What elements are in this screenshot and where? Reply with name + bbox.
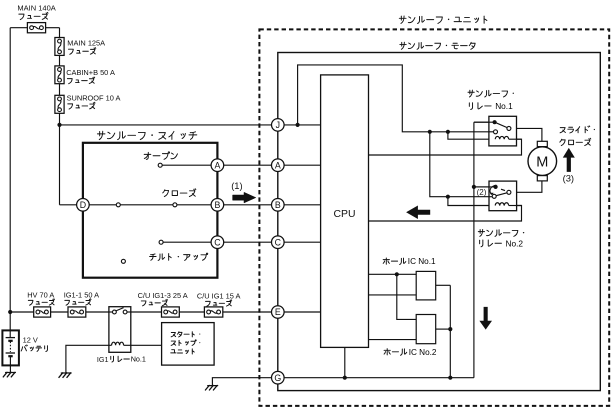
svg-text:SUNROOF 10 A: SUNROOF 10 A <box>67 94 121 103</box>
svg-text:B: B <box>275 200 281 210</box>
wire fuse C/U IG1-3 to fuse C/U IG1 <box>179 311 204 313</box>
wire hall IC No.1 out <box>436 284 451 286</box>
unit terminal A <box>272 159 285 172</box>
contact close (switch) <box>173 203 177 207</box>
wire tilt contact to C <box>163 241 217 243</box>
ground IG1 relay coil <box>59 373 71 378</box>
label fuse (katakana) <box>28 299 54 305</box>
wire relay1 coil feed <box>448 132 496 139</box>
junction hall ground <box>448 376 452 380</box>
label start line1 <box>171 332 200 337</box>
svg-text:(1): (1) <box>231 180 242 191</box>
wire hall outputs to ground bus <box>449 285 451 377</box>
fuse IG1-1 50 A <box>68 307 86 317</box>
unit terminal B <box>272 199 285 212</box>
label sunroof unit <box>399 16 487 24</box>
label battery (katakana) <box>21 345 47 352</box>
switch terminal B <box>211 199 224 212</box>
ground battery <box>3 372 15 377</box>
ground unit G <box>205 385 217 390</box>
svg-text:(2): (2) <box>477 188 487 197</box>
wire CPU to hall IC No.1 pin2 <box>369 294 417 296</box>
wire relay2 to motor (-) <box>511 181 542 192</box>
svg-text:C: C <box>275 237 282 247</box>
wire switch B to unit B <box>217 204 277 206</box>
wire relay commons to ground <box>473 122 475 378</box>
relay IG1 No.1 <box>109 307 131 353</box>
svg-text:No.1: No.1 <box>495 101 513 111</box>
relay sunroof No.1 <box>474 116 522 146</box>
wire fuse HV to fuse IG1-1 <box>51 311 68 313</box>
hall IC No.1 <box>416 271 436 300</box>
motor M sunroof <box>528 141 557 181</box>
wire fuse to terminal J <box>60 124 278 126</box>
unit terminal J <box>272 119 285 132</box>
svg-text:C: C <box>214 237 221 247</box>
unit terminal E <box>272 306 285 319</box>
junction CPU ground <box>343 376 347 380</box>
wire relay1 to motor (+) <box>511 128 542 141</box>
wire J to CPU <box>278 124 321 126</box>
svg-text:12 V: 12 V <box>23 335 38 344</box>
junction fuse bus / J / switch D <box>57 123 61 127</box>
hall IC No.2 <box>416 315 436 344</box>
svg-text:CPU: CPU <box>334 209 356 220</box>
label hall IC No.2 <box>384 349 407 356</box>
unit terminal G <box>272 371 285 384</box>
wire down to switch D <box>59 125 61 205</box>
label stop line2 <box>171 340 200 346</box>
svg-text:No.1: No.1 <box>131 355 146 364</box>
label sunroof relay No.1 line1 <box>468 90 514 97</box>
start-stop unit box <box>162 323 215 366</box>
label close <box>163 189 196 197</box>
wire relay2 coil to CPU <box>369 206 522 222</box>
junction J branch <box>296 123 300 127</box>
contact tilt-up (switch) <box>159 240 163 244</box>
svg-text:A: A <box>275 160 281 170</box>
label fuse (katakana) <box>19 12 48 19</box>
arrow (1) close signal <box>233 192 256 203</box>
label sunroof relay No.2 line1 <box>478 229 524 236</box>
label tilt-up <box>150 253 208 260</box>
contact open (switch) <box>158 163 162 167</box>
wire C to CPU <box>278 241 321 243</box>
wire to relay2 common <box>474 186 496 188</box>
junction hall outputs <box>448 327 452 331</box>
contact spare (switch) <box>121 259 125 263</box>
wire fuse stack bus <box>59 28 61 125</box>
sunroof unit boundary (dashed) <box>259 29 609 406</box>
junction relay branch 1 <box>428 130 432 134</box>
svg-text:IG1-1 50 A: IG1-1 50 A <box>64 290 99 299</box>
wire J branch to relay supply <box>298 65 496 132</box>
fuse SUNROOF 10 A <box>55 95 64 113</box>
fuse CABIN+B 50 A <box>55 66 64 84</box>
contact wiper pivot <box>116 203 120 207</box>
wire hall IC No.2 out <box>436 328 451 330</box>
label fuse (katakana) <box>141 299 167 305</box>
label IG1 relay No.1 <box>97 355 109 364</box>
fuse MAIN 125A <box>55 38 64 56</box>
label fuse (katakana) <box>206 300 232 306</box>
wire battery to fuse HV <box>10 311 34 313</box>
svg-text:C/U IG1-3 25 A: C/U IG1-3 25 A <box>138 291 188 300</box>
wire switch C to unit C <box>217 241 277 243</box>
switch terminal C <box>211 236 224 249</box>
wire battery bus left <box>9 28 11 312</box>
arrow relay drive signal <box>406 206 430 220</box>
label sunroof relay No.2 line2 <box>480 240 502 247</box>
wire fuse C/U IG1 to terminal E <box>223 311 278 313</box>
wire relay2 coil feed <box>448 197 496 206</box>
CPU U1 <box>321 75 369 348</box>
wire CPU to hall IC No.1 pin1 <box>369 273 417 275</box>
junction battery positive <box>8 310 12 314</box>
svg-text:MAIN 140A: MAIN 140A <box>17 3 55 12</box>
wire relay1 coil to CPU <box>369 139 522 155</box>
wire to switch terminal D <box>60 204 83 206</box>
svg-text:IG1: IG1 <box>97 355 109 364</box>
switch terminal D <box>77 199 90 212</box>
fuse C/U IG1 15 A <box>204 307 222 317</box>
wire G to chassis ground <box>212 378 277 386</box>
svg-text:M: M <box>536 154 548 170</box>
svg-text:A: A <box>214 160 220 170</box>
label fuse (katakana) <box>68 48 95 55</box>
switch terminal A <box>211 159 224 172</box>
svg-text:IC No.2: IC No.2 <box>409 348 437 357</box>
wire fuse IG1-1 to IG1 relay <box>86 311 109 313</box>
unit terminal C <box>272 236 285 249</box>
svg-text:HV 70 A: HV 70 A <box>27 290 54 299</box>
svg-text:G: G <box>274 373 281 383</box>
label unit line3 <box>171 349 194 354</box>
svg-text:B: B <box>214 200 220 210</box>
arrow down hall signal <box>479 307 492 330</box>
wire CPU to ground bus <box>344 347 346 377</box>
label open <box>144 152 177 160</box>
wire to relay1 common <box>474 121 495 123</box>
svg-text:IC No.1: IC No.1 <box>408 257 436 266</box>
wire B to CPU <box>278 204 321 206</box>
svg-text:E: E <box>275 307 281 317</box>
fuse MAIN 140A <box>27 23 45 33</box>
wire to relay2 lower contact <box>430 132 494 197</box>
junction relay2 coil feed <box>446 195 450 199</box>
wire IG1 coil to ground <box>66 345 112 372</box>
arrow (3) slide direction <box>563 148 575 172</box>
fuse C/U IG1-3 25 A <box>162 307 180 317</box>
sunroof switch box <box>83 143 218 278</box>
label fuse (katakana) <box>68 102 95 109</box>
label slide close line2 <box>560 138 591 145</box>
label hall IC No.1 <box>383 258 406 265</box>
wire D wiper row to B <box>83 204 218 206</box>
label fuse (katakana) <box>65 299 91 305</box>
wire CPU to hall IC No.2 pin2 <box>369 339 417 341</box>
relay sunroof No.2 <box>474 181 522 211</box>
label fuse (katakana) <box>67 77 94 84</box>
svg-text:MAIN 125A: MAIN 125A <box>67 39 105 48</box>
svg-text:D: D <box>80 200 86 210</box>
wire open contact to A <box>162 164 217 166</box>
label sunroof switch <box>97 131 196 139</box>
wire branch to hall IC No.2 pin1 <box>397 274 416 319</box>
svg-text:J: J <box>276 120 280 130</box>
svg-text:No.2: No.2 <box>506 238 524 248</box>
svg-text:CABIN+B 50 A: CABIN+B 50 A <box>66 68 115 77</box>
svg-text:C/U IG1 15 A: C/U IG1 15 A <box>197 291 241 300</box>
fuse HV 70 A <box>34 307 51 317</box>
label sunroof relay No.1 line2 <box>469 103 491 110</box>
wire to fuse MAIN 140A <box>10 27 27 29</box>
wire E to CPU <box>278 311 321 313</box>
battery 12V <box>2 312 19 372</box>
wire IG1 relay to fuse C/U IG1-3 <box>131 311 162 313</box>
label slide line1 <box>560 126 595 133</box>
wire from fuse MAIN 140A <box>46 27 60 29</box>
junction relay1 coil feed <box>446 130 450 134</box>
junction relay2 common <box>472 185 476 189</box>
svg-text:(3): (3) <box>563 173 574 184</box>
wire switch A to unit A <box>217 164 277 166</box>
sunroof motor assembly box <box>278 53 601 391</box>
junction hall branch <box>395 272 399 276</box>
wire G ground bus <box>278 377 474 379</box>
label sunroof motor <box>400 42 475 49</box>
wire IG1 coil to start-stop unit <box>124 344 162 346</box>
wire A to CPU <box>278 164 321 166</box>
